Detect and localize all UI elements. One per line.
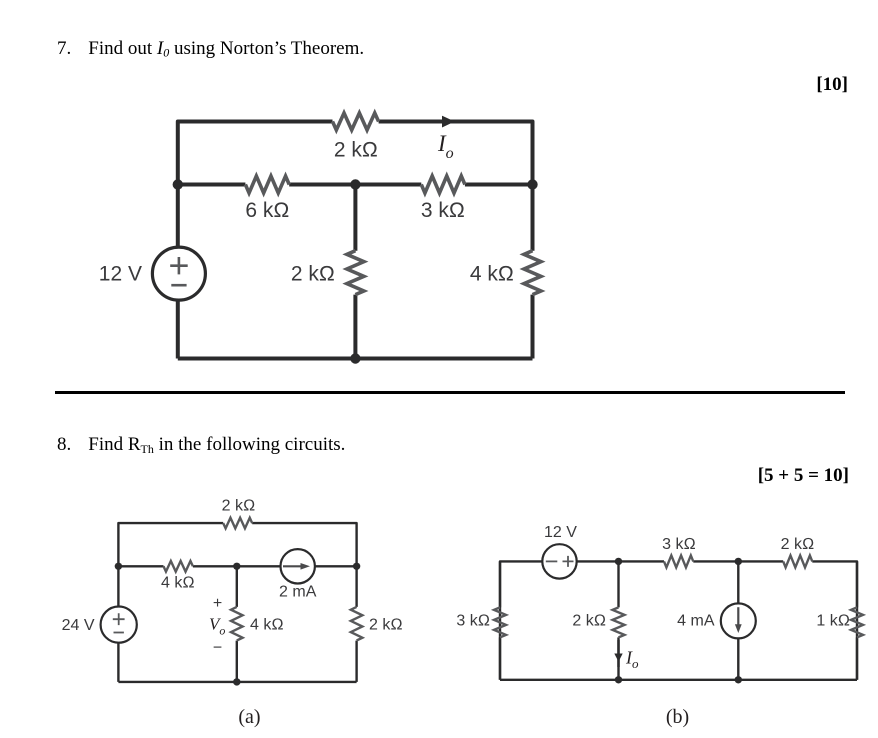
node dot bottom bbox=[350, 353, 360, 363]
node a middle bbox=[233, 563, 240, 570]
circuit 1 bbox=[0, 0, 878, 420]
resistor a 2k right vertical bbox=[351, 607, 363, 641]
voltage source 24V plus bbox=[113, 613, 125, 625]
svg-text:3 kΩ: 3 kΩ bbox=[456, 613, 490, 630]
divider line bbox=[55, 391, 845, 394]
wire bottom bbox=[178, 357, 533, 361]
svg-text:2 kΩ: 2 kΩ bbox=[781, 536, 815, 553]
wire left branch bbox=[176, 185, 180, 359]
resistor b 3k left vertical bbox=[494, 607, 506, 637]
node a right bbox=[353, 563, 360, 570]
wire b right branch bbox=[856, 561, 858, 679]
svg-text:1 kΩ: 1 kΩ bbox=[816, 613, 850, 630]
voltage source 12V circle bbox=[152, 247, 205, 300]
resistor a 4k left bbox=[164, 561, 193, 572]
node b top left bbox=[615, 558, 622, 565]
wire b left resistor branch bbox=[499, 561, 501, 679]
node a left bbox=[115, 563, 122, 570]
node dot left bbox=[173, 179, 183, 189]
wire b top left bbox=[500, 561, 664, 679]
resistor a 4k vertical bbox=[231, 607, 243, 641]
node dot middle bbox=[350, 179, 360, 189]
wire b top middle bbox=[693, 561, 857, 679]
svg-text:Io: Io bbox=[625, 648, 639, 672]
svg-text:12 V: 12 V bbox=[544, 524, 577, 541]
svg-text:(b): (b) bbox=[666, 706, 689, 728]
circuit (b) bbox=[440, 420, 878, 738]
wire b source branch bbox=[737, 561, 739, 679]
svg-text:2 kΩ: 2 kΩ bbox=[291, 263, 335, 286]
wire a left branch bbox=[117, 566, 119, 682]
svg-text:6 kΩ: 6 kΩ bbox=[245, 199, 289, 222]
svg-text:2 mA: 2 mA bbox=[279, 584, 317, 601]
current arrow on top wire bbox=[443, 117, 454, 127]
wire a bottom bbox=[118, 681, 356, 683]
wire a right branch bbox=[355, 566, 357, 682]
resistor 3k bbox=[421, 176, 465, 193]
svg-text:4 mA: 4 mA bbox=[677, 613, 715, 630]
node dot right bbox=[527, 179, 537, 189]
wire right branch bbox=[531, 185, 535, 359]
wire a middle bbox=[118, 565, 356, 567]
svg-text:4 kΩ: 4 kΩ bbox=[250, 617, 284, 634]
resistor b 3k top bbox=[664, 555, 693, 567]
svg-text:2 kΩ: 2 kΩ bbox=[369, 617, 403, 634]
svg-text:Vo: Vo bbox=[209, 615, 225, 638]
marks [5+5=10] bbox=[0, 465, 849, 487]
wire middle branch bbox=[353, 185, 357, 359]
marks [10] bbox=[0, 74, 848, 96]
resistor b 2k top bbox=[783, 555, 812, 567]
svg-text:2 kΩ: 2 kΩ bbox=[222, 498, 256, 515]
problem 7 statement bbox=[57, 38, 364, 61]
current source 4mA circle bbox=[721, 603, 756, 638]
svg-text:3 kΩ: 3 kΩ bbox=[662, 536, 696, 553]
svg-text:4 kΩ: 4 kΩ bbox=[470, 263, 514, 286]
svg-text:24 V: 24 V bbox=[62, 617, 95, 634]
svg-text:4 kΩ: 4 kΩ bbox=[161, 574, 195, 591]
svg-text:+: + bbox=[213, 595, 222, 612]
current source 2mA circle bbox=[281, 549, 315, 583]
resistor 2k top bbox=[333, 113, 379, 130]
wire top loop bbox=[178, 122, 533, 185]
voltage source 24V circle bbox=[101, 607, 137, 643]
current source 2mA arrow bbox=[283, 565, 302, 567]
resistor 2k middle vertical bbox=[347, 251, 364, 295]
voltage source minus bbox=[171, 284, 186, 287]
resistor b 1k vertical bbox=[851, 607, 863, 637]
wire a mid branch bbox=[236, 566, 238, 682]
node b bottom left bbox=[615, 676, 622, 683]
wire middle right bbox=[355, 183, 532, 187]
wire b bottom bbox=[500, 679, 857, 681]
voltage source plus bbox=[170, 257, 188, 274]
circuit (a) bbox=[0, 420, 440, 738]
wire middle left bbox=[178, 183, 356, 187]
resistor b 2k vertical bbox=[613, 607, 625, 637]
svg-text:12 V: 12 V bbox=[99, 263, 142, 286]
svg-text:2 kΩ: 2 kΩ bbox=[572, 613, 606, 630]
resistor a 2k top bbox=[223, 518, 252, 529]
svg-text:(a): (a) bbox=[238, 706, 260, 728]
Io arrow bbox=[617, 640, 619, 667]
voltage source 12V plus bbox=[563, 556, 574, 567]
svg-text:3 kΩ: 3 kΩ bbox=[421, 199, 465, 222]
node a bottom bbox=[233, 678, 240, 685]
voltage source 12V minus bbox=[546, 560, 558, 562]
svg-text:Io: Io bbox=[437, 131, 454, 162]
wire b mid branch 2k bbox=[617, 561, 619, 679]
node b bottom right bbox=[735, 676, 742, 683]
voltage source 12V circle bbox=[542, 544, 576, 578]
problem 8 statement bbox=[57, 434, 345, 457]
svg-text:−: − bbox=[213, 640, 222, 657]
current source 4mA arrow bbox=[737, 607, 739, 625]
svg-text:2 kΩ: 2 kΩ bbox=[334, 139, 378, 162]
wire a top loop bbox=[118, 523, 356, 566]
resistor 6k bbox=[245, 176, 289, 193]
resistor 4k right vertical bbox=[524, 251, 541, 295]
node b top right bbox=[735, 558, 742, 565]
voltage source 24V minus bbox=[114, 632, 124, 634]
